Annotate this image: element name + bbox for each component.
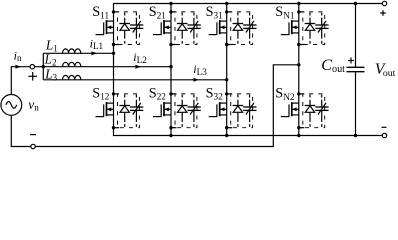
- capacitor C_out plates: [347, 66, 365, 68]
- parasitic capacitor of S22: [193, 95, 195, 98]
- dashed parasitic box of S31: [227, 11, 233, 13]
- svg-text:iL1: iL1: [90, 36, 104, 51]
- svg-text:Vout: Vout: [375, 61, 396, 79]
- body diode of S11: [124, 13, 126, 16]
- svg-text:S31: S31: [206, 4, 223, 20]
- node S12 box tie bottom: [112, 126, 115, 129]
- dashed parasitic box of S11: [114, 11, 120, 13]
- leg 2 wire: [170, 4, 172, 136]
- MOSFET symbol S22: [163, 102, 165, 116]
- leg 1 wire: [113, 12, 115, 128]
- terminal + output: [382, 1, 386, 5]
- current arrow i_L3: [193, 78, 199, 82]
- node return to leg N: [297, 63, 300, 66]
- svg-text:Cout: Cout: [321, 57, 345, 75]
- svg-text:iL2: iL2: [133, 50, 147, 65]
- node C_out bottom: [354, 134, 357, 137]
- node S31 box tie top: [225, 10, 228, 13]
- plus sign input: [28, 75, 37, 77]
- parasitic capacitor of SN1: [321, 13, 323, 16]
- body diode of S21: [181, 13, 183, 16]
- node S12 box tie top: [112, 92, 115, 95]
- top rail: [114, 4, 385, 12]
- minus sign output: [382, 126, 387, 128]
- dashed parasitic box of S22: [171, 93, 177, 95]
- capacitor C_out wire: [355, 4, 357, 68]
- node L1-leg1: [112, 52, 115, 55]
- svg-text:S21: S21: [149, 4, 166, 20]
- terminal + input: [30, 65, 34, 69]
- wire input top: [11, 67, 43, 95]
- body diode of S31: [237, 13, 239, 16]
- svg-text:S11: S11: [92, 4, 109, 20]
- dashed parasitic box of S12: [114, 93, 120, 95]
- dashed parasitic box of S21: [171, 11, 177, 13]
- current arrow i_n: [15, 65, 21, 69]
- node C_out top: [354, 2, 357, 5]
- plus sign output: [380, 12, 386, 14]
- inductor L3: [63, 75, 81, 79]
- MOSFET symbol S31: [219, 20, 221, 34]
- body diode of S12: [124, 95, 126, 98]
- node L2-leg2: [169, 65, 172, 68]
- svg-text:SN2: SN2: [275, 86, 295, 102]
- body diode of SN2: [309, 95, 311, 98]
- current arrow i_L2: [135, 65, 141, 69]
- node L3-leg3: [225, 78, 228, 81]
- svg-text:iL3: iL3: [193, 62, 207, 77]
- inductor L1: [63, 49, 81, 53]
- body diode of S22: [181, 95, 183, 98]
- body diode of S32: [237, 95, 239, 98]
- dashed parasitic box of S32: [227, 93, 233, 95]
- ac source v_n: [1, 95, 22, 116]
- terminal - output: [382, 133, 386, 137]
- svg-text:SN1: SN1: [275, 4, 295, 20]
- MOSFET symbol S11: [106, 20, 108, 34]
- bottom rail: [114, 128, 385, 136]
- node S32 box tie top: [225, 92, 228, 95]
- inductor L1 branch wire: [43, 52, 113, 54]
- node S22 box tie bottom: [169, 126, 172, 129]
- body diode of SN1: [309, 13, 311, 16]
- inductor L3 branch wire: [43, 79, 226, 81]
- svg-text:L3: L3: [44, 66, 57, 82]
- dashed parasitic box of SN2: [299, 93, 305, 95]
- node S11 box tie bottom: [112, 43, 115, 46]
- leg 3 wire: [226, 4, 228, 136]
- MOSFET symbol S12: [106, 102, 108, 116]
- node SN2 box tie bottom: [297, 126, 300, 129]
- parasitic capacitor of S32: [249, 95, 251, 98]
- svg-text:vn: vn: [28, 97, 39, 113]
- inductor L2: [63, 62, 81, 66]
- wire input bus: [42, 53, 44, 80]
- node SN1 box tie bottom: [297, 43, 300, 46]
- node S11 box tie top: [112, 10, 115, 13]
- parasitic capacitor of S31: [249, 13, 251, 16]
- plus sign C_out: [348, 60, 354, 62]
- svg-text:S22: S22: [149, 85, 166, 101]
- parasitic capacitor of S12: [135, 95, 137, 98]
- node S21 box tie bottom: [169, 43, 172, 46]
- wire source bottom / return: [11, 65, 299, 147]
- MOSFET symbol SN1: [291, 20, 293, 34]
- node S21 box tie top: [169, 10, 172, 13]
- node S32 box tie bottom: [225, 126, 228, 129]
- current arrow i_L1: [91, 51, 97, 55]
- minus sign input: [30, 134, 36, 136]
- node SN2 box tie top: [297, 92, 300, 95]
- dashed parasitic box of SN1: [299, 11, 305, 13]
- node S31 box tie bottom: [225, 43, 228, 46]
- node SN1 box tie top: [297, 10, 300, 13]
- MOSFET symbol SN2: [291, 102, 293, 116]
- leg N wire: [298, 4, 300, 136]
- svg-text:S32: S32: [206, 85, 223, 101]
- parasitic capacitor of SN2: [321, 95, 323, 98]
- node S22 box tie top: [169, 92, 172, 95]
- MOSFET symbol S21: [163, 20, 165, 34]
- svg-text:S12: S12: [92, 85, 109, 101]
- svg-text:in: in: [14, 48, 22, 63]
- MOSFET symbol S32: [219, 102, 221, 116]
- parasitic capacitor of S21: [193, 13, 195, 16]
- inductor L2 branch wire: [43, 66, 171, 68]
- parasitic capacitor of S11: [135, 13, 137, 16]
- terminal - input: [31, 144, 35, 148]
